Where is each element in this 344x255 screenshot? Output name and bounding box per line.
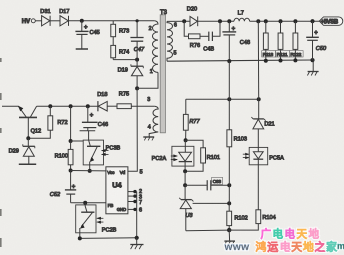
node junction D21 top [257,97,261,101]
node junction C46 top [86,104,90,108]
svg-text:R103: R103 [234,136,247,142]
node HV input [22,18,36,25]
wire bottom return rail [80,237,137,240]
diode D31 [40,9,50,26]
inductor L7 [234,11,320,22]
U4 pin 2 [128,189,142,195]
node junction R122 bottom [293,58,297,62]
optocoupler PC2A [152,140,194,171]
svg-text:GND: GND [117,207,126,212]
svg-text:2: 2 [149,26,152,32]
node junction R72 top [48,104,52,108]
node junction C50 top [310,19,314,23]
scan edge artifacts left border [0,58,2,247]
wire PC2A cathode down to C63 node [184,171,186,185]
svg-text:+: + [90,113,94,119]
svg-text:6: 6 [139,208,142,214]
wire sense rail from R77 to D21 branch [186,98,259,100]
wire D21 branch from +5VSB rail [257,21,259,99]
svg-text:C50: C50 [316,46,327,52]
wire Vcc branch vertical [70,106,72,141]
wire Q12 collector rail [37,105,98,107]
svg-text:C45: C45 [90,30,100,36]
optocoupler PC2B [76,203,117,239]
svg-text:天: 天 [297,229,308,241]
svg-text:PC3B: PC3B [106,145,121,151]
capacitor C46 [82,106,108,131]
svg-text:C63: C63 [213,179,222,185]
wire FB line to U4 [71,202,106,204]
U4 pin 6 GND [128,208,142,214]
svg-text:D18: D18 [97,92,107,98]
svg-text:D19: D19 [118,67,128,73]
node junction Vcc branch [69,104,73,108]
node junction R121 bottom [279,59,283,63]
svg-text:+5VSB: +5VSB [321,20,339,26]
svg-text:运: 运 [267,241,278,254]
svg-text:D17: D17 [59,9,69,15]
value labels R118 R121 R122 [262,51,303,58]
wire HV to D31 [35,20,41,22]
svg-text:PC2A: PC2A [152,156,167,162]
wire R74 bottom to D19 node [113,59,137,61]
svg-text:R76: R76 [190,43,200,49]
svg-text:R121: R121 [277,52,288,58]
svg-text:鸿: 鸿 [256,240,267,254]
svg-text:Q12: Q12 [31,129,42,135]
U4 pin 5 [140,169,143,175]
svg-text:电: 电 [285,228,296,241]
optocoupler PC3B [83,140,120,171]
svg-text:1: 1 [150,69,153,75]
resistor R102 [227,203,248,230]
resistor R77 [183,99,200,140]
transistor Q12 [2,106,41,139]
svg-text:+: + [314,31,318,37]
transformer T3 secondary winding pins 6-5 [167,21,177,61]
svg-text:D21: D21 [264,122,274,128]
wire drain line down to U4 pin5 [128,88,137,171]
svg-text:广: 广 [261,228,272,241]
svg-text:HV: HV [22,18,31,25]
wire Vcc rail to U4 [71,170,106,172]
svg-text:FB: FB [108,203,114,208]
resistor R76 snubber [184,21,208,49]
svg-text:R74: R74 [119,49,129,55]
svg-text:+: + [84,25,88,31]
node junction Vcc rail left [69,169,73,173]
wire C48 line down to sense rail [228,61,230,99]
zener diode D21 [251,99,274,147]
resistor R122 [293,21,298,61]
ground bar below C45 [76,48,88,50]
ground bar below D29 [19,163,36,165]
node junction R100 top / PC3B [69,139,73,143]
svg-text:D31: D31 [40,9,50,15]
node junction R102/R104/U3 bottom [227,228,231,232]
node junction PC2B collector on FB line [83,201,87,205]
svg-text:R100: R100 [55,154,68,160]
svg-text:R104: R104 [262,215,275,221]
node junction R103 top [227,97,231,101]
ground below U4 bus [130,238,143,249]
svg-text:地: 地 [309,228,320,241]
svg-text:天: 天 [291,241,303,254]
node junction C45 [80,19,84,23]
resistor R75 [117,91,155,108]
node junction PC2A anode / R101 [184,138,188,142]
svg-text:6: 6 [174,22,177,28]
transformer T3 lower primary winding pins 3-4 [147,97,158,136]
node junction PC2B emitter bottom [78,236,82,240]
svg-text:5: 5 [140,169,143,175]
node junction PC3B emitter [88,169,92,173]
svg-text:www: www [224,242,250,253]
svg-text:地: 地 [303,240,314,254]
diode D18 [97,92,117,111]
wire U3 ref to R102 node [193,202,230,204]
svg-text:电: 电 [280,240,291,254]
transformer T3 core [160,10,168,133]
svg-text:R118: R118 [263,52,274,58]
resistor R103 [227,99,247,203]
wire C46 bottom bar to PC3B collector [80,131,96,140]
wire D17 to primary top rail [69,20,155,22]
svg-text:Vcc: Vcc [107,170,115,175]
node junction C63 left [183,183,187,187]
svg-text:4: 4 [148,124,151,130]
U4 pin 7 [128,200,142,206]
resistor R100 [55,141,73,171]
resistor R121 [278,21,283,61]
svg-text:5: 5 [174,51,177,57]
watermark row 1 [261,228,320,241]
ground below C50 [307,60,318,75]
wire pin1 to D19 node [137,72,158,88]
svg-text:D20: D20 [187,7,197,13]
capacitor C48 [222,19,250,61]
node junction C50 bottom [310,58,314,62]
shunt regulator U3 [179,185,193,231]
wire D31 to D17 [50,20,60,22]
watermark row 2 [224,240,344,254]
transformer T3 primary winding pins 2-1 [149,21,158,75]
svg-text:R101: R101 [207,155,220,161]
node junction Q12 base / R72 / D29 [26,136,30,140]
resistor R101 [185,140,220,171]
svg-text:D29: D29 [9,149,19,155]
svg-text:电: 电 [273,228,284,241]
svg-text:R72: R72 [57,120,67,126]
svg-text:U3: U3 [185,213,193,219]
resistor R118 [263,21,268,61]
svg-text:PC5A: PC5A [269,155,284,161]
net +5VSB tag [319,17,343,26]
node junction R122 top [293,19,297,23]
node junction R118 bottom [264,59,268,63]
svg-text:7: 7 [139,200,142,206]
svg-text:U4: U4 [112,181,122,190]
wire T3 pin6 to D20 [167,20,190,22]
svg-text:L7: L7 [238,11,244,17]
resistor R74 [111,37,129,60]
svg-text:C52: C52 [50,192,61,198]
ground below R102 [224,230,235,245]
diode D17 [59,9,69,26]
node junction R103 bottom / U3 ref [227,201,231,205]
optocoupler PC5A [243,147,284,164]
capacitor C50 [306,21,327,60]
capacitor C47 [130,19,145,59]
capacitor C45 [75,21,99,49]
node junction D21 branch top [256,19,260,23]
node junction PC2A cathode [183,169,187,173]
resistor R72 [28,106,67,138]
node junction D19 anode / T3 pin1 [135,86,139,90]
svg-text:R75: R75 [119,91,129,97]
svg-text:R73: R73 [119,28,129,34]
svg-text:PC2B: PC2B [102,228,117,234]
svg-text:m: m [337,241,344,251]
node junction R118 top [264,19,268,23]
node junction D20 anode / snubber [182,19,186,23]
zener diode D19 [118,60,144,89]
svg-text:3: 3 [147,97,150,103]
svg-text:C47: C47 [134,47,145,53]
node junction D20 cathode / snubber return [218,19,222,23]
svg-text:R77: R77 [189,119,200,125]
svg-text:之: 之 [315,240,326,254]
svg-text:C46: C46 [98,122,108,128]
wire node to PC3B box [71,140,84,142]
zener diode D29 [9,138,35,164]
wire U4 pin bus to ground [136,192,138,238]
capacitor C52 [50,171,76,203]
svg-text:C48: C48 [240,40,250,46]
node junction ground bus [135,236,139,240]
node junction C48 bottom [227,59,231,63]
svg-text:T3: T3 [160,10,168,16]
capacitor C63 [185,177,229,190]
resistor R73 [111,21,129,37]
svg-text:R122: R122 [290,52,301,58]
capacitor C4B snubber [203,21,220,52]
secondary return rail [167,60,313,61]
svg-text:R102: R102 [234,216,247,222]
svg-text:C4B: C4B [203,47,214,53]
U4 pin 3 [128,194,142,200]
ground bar T3 pin4 [143,137,154,140]
IC U4 [106,167,128,214]
resistor R104 [229,165,276,230]
diode D20 [187,7,234,27]
node junction C47/R74/D19 [135,58,139,62]
wire U3 anode to bottom node [186,229,229,232]
node junction C63 right [227,183,231,187]
svg-text:Vd: Vd [120,170,126,175]
node junction R121 top [279,19,283,23]
